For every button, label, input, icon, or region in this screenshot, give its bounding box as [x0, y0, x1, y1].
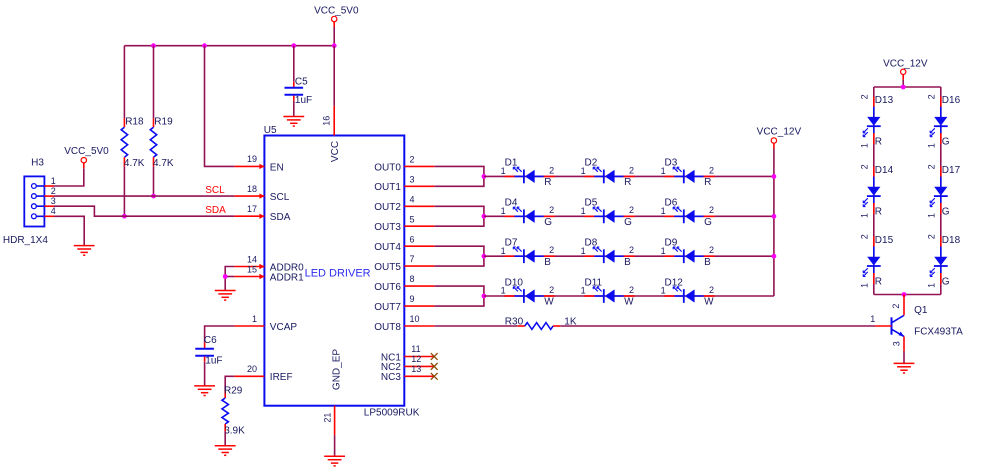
svg-text:B: B: [544, 257, 551, 268]
wire bus to C5: [293, 46, 295, 82]
svg-text:D6: D6: [665, 198, 678, 209]
svg-text:H3: H3: [31, 157, 44, 168]
U5 pin 12 NC2: [381, 354, 438, 373]
wire R19 to SCL net: [153, 166, 155, 196]
svg-text:4: 4: [410, 194, 415, 204]
svg-text:OUT8: OUT8: [374, 322, 401, 333]
wire OUT2/OUT3 pair loop: [434, 206, 484, 226]
U5 pin 3 OUT1: [374, 174, 434, 193]
junction bus/EN branch: [202, 43, 207, 48]
wire left chain: [873, 87, 875, 295]
svg-text:2: 2: [859, 164, 869, 169]
svg-text:G: G: [704, 217, 712, 228]
svg-text:VCC: VCC: [330, 141, 341, 162]
svg-text:9: 9: [410, 294, 415, 304]
wire LED row 2: [484, 215, 774, 217]
svg-text:D12: D12: [665, 277, 684, 288]
svg-text:3.9K: 3.9K: [224, 425, 245, 436]
svg-text:2: 2: [926, 234, 936, 239]
LED D7: [501, 238, 555, 268]
svg-text:1: 1: [51, 176, 56, 186]
svg-text:2: 2: [709, 245, 714, 255]
U5 pin 14 ADDR0: [234, 254, 304, 273]
ground (ADDR): [215, 291, 236, 301]
svg-text:R19: R19: [154, 117, 173, 128]
svg-text:R: R: [704, 177, 711, 188]
junction Q1 collector: [902, 292, 907, 297]
U5 pin 8 OUT6: [374, 274, 434, 293]
U5 pin 7 OUT5: [374, 254, 434, 273]
wire LED row 1: [484, 175, 774, 177]
svg-text:2: 2: [549, 285, 554, 295]
svg-text:G: G: [544, 217, 552, 228]
junction LED row 3: [482, 254, 487, 259]
svg-text:1: 1: [859, 143, 869, 148]
svg-text:1: 1: [661, 166, 666, 176]
svg-text:SCL: SCL: [205, 185, 225, 196]
svg-text:D5: D5: [585, 198, 598, 209]
svg-text:W: W: [544, 297, 554, 308]
junction ADDR1: [223, 274, 228, 279]
svg-text:2: 2: [709, 205, 714, 215]
wire VCAP to C6: [205, 326, 235, 343]
svg-text:2: 2: [410, 155, 415, 165]
svg-text:OUT1: OUT1: [374, 182, 401, 193]
LED D17: [926, 164, 960, 218]
svg-text:D8: D8: [585, 238, 598, 249]
svg-text:OUT4: OUT4: [374, 242, 401, 253]
svg-text:G: G: [942, 276, 950, 287]
wire LED row 4: [484, 295, 774, 297]
wire VCC_5V0 drop to bus: [333, 27, 335, 46]
svg-text:LP5009RUK: LP5009RUK: [364, 407, 420, 418]
svg-text:2: 2: [859, 94, 869, 99]
LED D1: [501, 158, 555, 188]
wire header pin3 to SDA (jog): [54, 206, 234, 216]
svg-text:R: R: [624, 177, 631, 188]
svg-text:1: 1: [661, 246, 666, 256]
svg-text:D16: D16: [942, 95, 961, 106]
svg-text:SCL: SCL: [270, 192, 290, 203]
svg-text:1: 1: [859, 213, 869, 218]
wire R29 to ground: [224, 431, 226, 445]
capacitor C6 1uF: [195, 335, 222, 367]
U5 pin 9 OUT7: [374, 294, 434, 313]
svg-text:R: R: [544, 177, 551, 188]
U5 pin 18 SCL: [234, 184, 289, 203]
svg-text:2: 2: [629, 165, 634, 175]
svg-text:2: 2: [549, 245, 554, 255]
junction bus/VCC pin16: [332, 43, 337, 48]
IC U5 LP5009RUK body: [264, 125, 420, 418]
svg-text:17: 17: [247, 204, 257, 214]
resistor R19 4.7K: [150, 117, 174, 169]
wire chains bottom: [874, 294, 941, 296]
svg-text:D14: D14: [875, 165, 894, 176]
svg-text:LED DRIVER: LED DRIVER: [305, 267, 371, 279]
power symbol VCC_12V (mid): [757, 127, 802, 149]
svg-text:1: 1: [581, 206, 586, 216]
svg-text:VCC_5V0: VCC_5V0: [314, 5, 359, 16]
svg-text:D17: D17: [942, 165, 961, 176]
svg-text:12: 12: [411, 354, 421, 364]
resistor R30 1K: [505, 316, 577, 329]
svg-text:3: 3: [892, 341, 902, 346]
junction R19/SCL: [151, 194, 156, 199]
ground (R29): [215, 446, 236, 456]
svg-text:OUT0: OUT0: [374, 162, 401, 173]
wire VCC_12V right top: [874, 80, 941, 87]
svg-text:OUT5: OUT5: [374, 262, 401, 273]
svg-text:D13: D13: [875, 95, 894, 106]
wire OUT0/OUT1 pair loop: [434, 166, 484, 186]
power symbol VCC_12V (right): [883, 58, 928, 79]
U5 pin 11 NC1: [381, 344, 438, 363]
svg-text:1: 1: [581, 246, 586, 256]
svg-text:20: 20: [247, 364, 257, 374]
wire R18 to SDA net: [123, 166, 125, 216]
svg-text:2: 2: [51, 186, 56, 196]
svg-text:D7: D7: [505, 238, 518, 249]
U5 pin 4 OUT2: [374, 194, 434, 213]
wire LED row 3: [484, 255, 774, 257]
svg-text:2: 2: [629, 245, 634, 255]
svg-text:D1: D1: [505, 158, 518, 169]
wire header pin1 to VCC_5V0: [54, 168, 84, 186]
svg-text:1: 1: [501, 286, 506, 296]
svg-text:1: 1: [252, 314, 257, 324]
LED D2: [581, 158, 635, 188]
U5 pin 19 EN: [234, 154, 283, 173]
svg-text:SDA: SDA: [270, 212, 291, 223]
wire OUT4/OUT5 pair loop: [434, 246, 484, 266]
svg-text:D9: D9: [665, 238, 678, 249]
junction R18/SDA: [122, 214, 127, 219]
svg-text:IREF: IREF: [270, 372, 293, 383]
junction bus/C5: [291, 43, 296, 48]
svg-text:2: 2: [629, 205, 634, 215]
svg-text:2: 2: [549, 205, 554, 215]
connector H3 HDR_1X4: [3, 157, 56, 246]
LED D18: [926, 234, 960, 288]
svg-text:1: 1: [870, 314, 875, 324]
svg-text:OUT7: OUT7: [374, 302, 401, 313]
svg-text:D2: D2: [585, 158, 598, 169]
svg-text:3: 3: [410, 174, 415, 184]
svg-text:19: 19: [247, 154, 257, 164]
svg-text:1uF: 1uF: [295, 95, 312, 106]
ground (GND_EP): [324, 456, 345, 466]
svg-text:R: R: [875, 276, 882, 287]
LED D4: [501, 198, 555, 228]
wire pin21 to ground: [334, 435, 336, 456]
resistor R29 3.9K: [222, 386, 245, 437]
svg-text:8: 8: [410, 274, 415, 284]
svg-text:1: 1: [859, 283, 869, 288]
svg-text:15: 15: [247, 264, 257, 274]
svg-text:OUT3: OUT3: [374, 222, 401, 233]
U5 pin 2 OUT0: [374, 155, 434, 174]
U5 pin 10 OUT8: [374, 314, 434, 333]
svg-text:NC3: NC3: [381, 372, 401, 383]
svg-text:2: 2: [629, 285, 634, 295]
wire VCC_12V rail: [773, 149, 775, 297]
wire OUT8 to R30: [434, 325, 517, 327]
LED D5: [581, 198, 635, 228]
svg-text:B: B: [624, 257, 631, 268]
wire header pin2 to SCL: [54, 195, 234, 197]
svg-text:16: 16: [322, 116, 332, 126]
svg-text:1: 1: [501, 246, 506, 256]
ground (Q1): [894, 363, 915, 373]
svg-text:G: G: [624, 217, 632, 228]
wire right chain: [940, 87, 942, 295]
wire R30 to Q1 base: [560, 325, 875, 327]
resistor R18 4.7K: [121, 117, 145, 169]
svg-text:W: W: [704, 297, 714, 308]
svg-text:D11: D11: [585, 277, 603, 288]
svg-text:14: 14: [247, 254, 257, 264]
U5 pin 16 VCC: [322, 106, 341, 162]
svg-text:C5: C5: [295, 76, 308, 87]
svg-text:5: 5: [410, 214, 415, 224]
junction LED row 4: [482, 294, 487, 299]
svg-text:R30: R30: [505, 316, 524, 327]
svg-text:4.7K: 4.7K: [153, 158, 174, 169]
LED D16: [926, 94, 960, 148]
LED D11: [581, 277, 635, 307]
svg-text:1: 1: [926, 143, 936, 148]
LED D6: [661, 198, 715, 228]
svg-text:1: 1: [581, 166, 586, 176]
junction bus/R19: [151, 43, 156, 48]
wire C6 to ground: [204, 362, 206, 386]
svg-text:2: 2: [709, 165, 714, 175]
svg-text:1: 1: [661, 206, 666, 216]
capacitor C5 1uF: [285, 76, 313, 106]
svg-text:10: 10: [410, 314, 420, 324]
svg-text:21: 21: [322, 413, 332, 423]
svg-text:1: 1: [501, 166, 506, 176]
svg-text:SDA: SDA: [205, 205, 226, 216]
svg-text:U5: U5: [264, 125, 277, 136]
svg-text:3: 3: [51, 196, 56, 206]
junction right top: [901, 85, 906, 90]
svg-text:18: 18: [247, 184, 257, 194]
svg-text:C6: C6: [204, 335, 217, 346]
ground (C5): [283, 117, 304, 127]
U5 pin 20 IREF: [234, 364, 292, 383]
wire Q1 emitter to ground: [903, 351, 905, 363]
svg-text:6: 6: [410, 234, 415, 244]
junction LED row 1: [482, 174, 487, 179]
LED D8: [581, 238, 635, 268]
wire 5V bus: [124, 45, 334, 47]
LED D13: [859, 94, 893, 148]
svg-text:R18: R18: [125, 117, 144, 128]
svg-text:ADDR1: ADDR1: [270, 272, 304, 283]
ground (C6): [194, 386, 215, 396]
svg-text:Q1: Q1: [914, 305, 928, 316]
U5 pin 5 OUT3: [374, 214, 434, 233]
LED D12: [661, 277, 715, 307]
svg-text:GND_EP: GND_EP: [332, 349, 343, 390]
U5 pin 6 OUT4: [374, 234, 434, 253]
svg-text:VCC_5V0: VCC_5V0: [64, 146, 109, 157]
svg-text:W: W: [624, 297, 634, 308]
LED D3: [661, 158, 715, 188]
svg-text:FCX493TA: FCX493TA: [914, 326, 963, 337]
svg-text:VCC_12V: VCC_12V: [757, 127, 802, 138]
power symbol VCC_5V0 (header): [64, 146, 109, 168]
U5 pin 1 VCAP: [234, 314, 297, 333]
svg-text:2: 2: [891, 304, 901, 309]
U5 pin 15 ADDR1: [234, 264, 304, 283]
svg-text:D4: D4: [505, 198, 518, 209]
svg-text:1: 1: [661, 286, 666, 296]
svg-text:D3: D3: [665, 158, 678, 169]
LED D15: [859, 234, 893, 288]
svg-text:D15: D15: [875, 235, 894, 246]
svg-text:2: 2: [709, 285, 714, 295]
svg-text:1: 1: [501, 206, 506, 216]
svg-text:1: 1: [581, 286, 586, 296]
wire C5 to ground: [293, 101, 295, 117]
junction rail row 3: [772, 254, 777, 259]
svg-text:B: B: [704, 257, 711, 268]
wire bus to R19: [153, 46, 155, 119]
net label SCL: [205, 185, 225, 196]
svg-text:D18: D18: [942, 235, 961, 246]
svg-text:1: 1: [926, 283, 936, 288]
wire header pin4 to ground: [54, 216, 84, 245]
LED D14: [859, 164, 893, 218]
svg-text:EN: EN: [270, 162, 284, 173]
wire bus to EN pin: [205, 46, 235, 167]
wire IREF to R29: [225, 376, 234, 390]
svg-text:11: 11: [411, 344, 420, 354]
U5 pin 21 GND_EP: [322, 349, 342, 436]
svg-text:OUT2: OUT2: [374, 202, 401, 213]
svg-text:VCAP: VCAP: [270, 322, 298, 333]
wire bus to pin16: [333, 46, 335, 106]
transistor Q1 FCX493TA: [870, 295, 963, 352]
svg-text:OUT6: OUT6: [374, 282, 401, 293]
svg-text:G: G: [942, 207, 950, 218]
svg-text:R: R: [875, 137, 882, 148]
svg-text:G: G: [942, 137, 950, 148]
U5 pin 13 NC3: [381, 364, 438, 383]
LED D10: [501, 277, 555, 307]
junction rail row 2: [772, 214, 777, 219]
svg-text:1: 1: [926, 213, 936, 218]
svg-text:7: 7: [410, 254, 415, 264]
svg-text:R29: R29: [224, 386, 243, 397]
svg-text:2: 2: [926, 94, 936, 99]
svg-text:R: R: [875, 207, 882, 218]
svg-text:4: 4: [51, 206, 56, 216]
svg-text:D10: D10: [505, 277, 524, 288]
junction rail row 1: [772, 174, 777, 179]
svg-text:HDR_1X4: HDR_1X4: [3, 235, 48, 246]
wire ADDR0/ADDR1 to ground: [225, 267, 234, 291]
svg-text:1uF: 1uF: [205, 356, 222, 367]
wire bus to R18: [123, 46, 125, 119]
power symbol VCC_5V0 (top): [314, 5, 359, 27]
svg-text:2: 2: [926, 164, 936, 169]
LED D9: [661, 238, 715, 268]
svg-text:2: 2: [859, 234, 869, 239]
svg-text:2: 2: [549, 165, 554, 175]
ground (header pin4): [74, 246, 95, 256]
net label SDA: [205, 205, 226, 216]
junction LED row 2: [482, 214, 487, 219]
svg-text:VCC_12V: VCC_12V: [883, 58, 928, 69]
svg-text:4.7K: 4.7K: [124, 158, 145, 169]
wire OUT6/OUT7 pair loop: [434, 286, 484, 306]
svg-text:13: 13: [411, 364, 421, 374]
U5 pin 17 SDA: [234, 204, 290, 223]
